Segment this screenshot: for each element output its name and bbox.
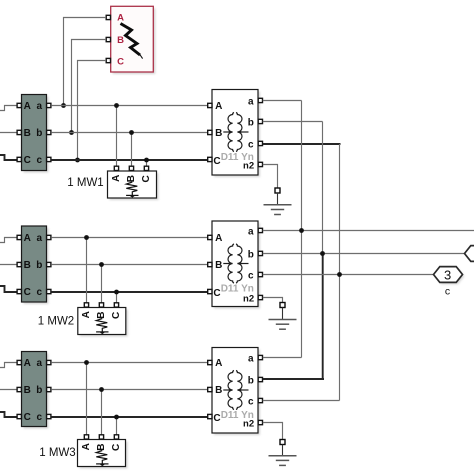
output port 3 (hexagon) xyxy=(434,267,465,285)
svg-text:A: A xyxy=(24,101,31,112)
svg-text:B: B xyxy=(96,443,107,450)
transformer T2 winding icon xyxy=(223,244,248,283)
junction load-B tap row2 xyxy=(99,262,104,267)
three-phase transformer block T2 xyxy=(212,221,260,309)
lightning bolt icon inside fault block xyxy=(121,24,143,59)
wire phase a row3 xyxy=(51,362,209,364)
wire input A row3 (left edge jog) xyxy=(0,363,17,368)
svg-text:A: A xyxy=(81,443,92,450)
wire output phase b xyxy=(263,253,465,255)
transformer T2 port A xyxy=(208,235,212,239)
transformer T1 port C xyxy=(208,157,212,161)
transformer T2 port C xyxy=(208,289,212,293)
wire load tap B row3 xyxy=(101,390,103,435)
svg-text:a: a xyxy=(248,226,254,237)
wire T3 c to bus xyxy=(263,400,340,402)
transformer T2 port c xyxy=(258,272,262,276)
transformer T1 port n2 xyxy=(258,162,262,166)
wire output phase a xyxy=(263,230,474,232)
svg-text:C: C xyxy=(117,57,124,68)
junction load-B tap row3 xyxy=(99,387,104,392)
transformer T2 port n2 xyxy=(258,295,262,299)
measurement row1 port b xyxy=(47,130,51,134)
svg-text:C: C xyxy=(24,412,31,423)
ground block port T3 xyxy=(280,440,285,445)
three-phase transformer block T1 xyxy=(212,90,260,178)
wire load tap A row2 xyxy=(86,238,88,303)
ground symbol T2 xyxy=(269,308,297,330)
wire input A row1 (left edge jog) xyxy=(0,106,17,111)
load row2 port C xyxy=(114,303,118,307)
svg-text:C: C xyxy=(213,288,220,299)
svg-text:1 MW3: 1 MW3 xyxy=(39,447,75,459)
wire n2 T3 to ground xyxy=(263,423,283,440)
measurement row3 port b xyxy=(47,387,51,391)
junction load-A tap row2 xyxy=(84,235,89,240)
three-phase V-I measurement block row3 xyxy=(22,352,49,429)
wire input B row3 xyxy=(0,389,17,391)
svg-text:1 MW2: 1 MW2 xyxy=(38,316,74,328)
svg-text:A: A xyxy=(215,233,222,244)
wire input C row2 (bold, left edge jog) xyxy=(0,286,17,292)
junction load-C tap row2 xyxy=(114,290,119,295)
wire input B row2 xyxy=(0,264,17,266)
svg-text:C: C xyxy=(213,413,220,424)
load row3 port A xyxy=(84,435,88,439)
svg-text:B: B xyxy=(24,385,31,396)
load row1 port A xyxy=(114,166,118,170)
load row2 port A xyxy=(84,303,88,307)
wire T3 a to bus xyxy=(263,357,302,359)
transformer T3 port B xyxy=(208,387,212,391)
junction load-A tap row1 xyxy=(114,103,119,108)
label 1 MW1 xyxy=(67,177,103,189)
transformer T3 port a xyxy=(258,355,262,359)
svg-text:B: B xyxy=(117,35,124,46)
measurement row3 port B xyxy=(17,387,21,391)
wire phase c row2 (bold) xyxy=(51,291,209,293)
three-phase RLC load block 1 MW2 xyxy=(78,308,128,337)
wire load tap C row2 xyxy=(116,292,118,303)
bus vertical phase b upper xyxy=(322,122,324,254)
svg-text:B: B xyxy=(215,260,222,271)
transformer T1 port B xyxy=(208,130,212,134)
load row1 port C xyxy=(144,166,148,170)
measurement row2 port b xyxy=(47,262,51,266)
svg-text:c: c xyxy=(248,139,254,150)
label c under port 3 xyxy=(445,286,450,298)
transformer T1 port c xyxy=(258,141,262,145)
measurement row2 port c xyxy=(47,289,51,293)
svg-text:a: a xyxy=(248,353,254,364)
svg-text:b: b xyxy=(36,128,42,139)
transformer T3 port C xyxy=(208,414,212,418)
transformer T3 winding icon xyxy=(223,371,248,410)
svg-text:3: 3 xyxy=(444,268,451,283)
junction bus-b xyxy=(320,251,325,256)
ground block port T1 xyxy=(275,188,280,193)
wire n2 T2 to ground xyxy=(263,298,283,303)
svg-text:a: a xyxy=(37,233,43,244)
svg-text:c: c xyxy=(248,270,254,281)
transformer T3 port n2 xyxy=(258,420,262,424)
svg-text:B: B xyxy=(24,260,31,271)
three-phase transformer block T3 xyxy=(212,348,260,436)
measurement row1 port C xyxy=(17,157,21,161)
wire load tap B row1 xyxy=(131,133,133,167)
svg-text:D11 Yn: D11 Yn xyxy=(221,410,254,421)
svg-text:C: C xyxy=(24,287,31,298)
measurement row2 port a xyxy=(47,235,51,239)
wire fault C to phase-c node xyxy=(78,61,107,161)
measurement row2 port A xyxy=(17,235,21,239)
svg-text:n2: n2 xyxy=(243,294,254,305)
svg-text:A: A xyxy=(111,175,122,182)
ground symbol T1 xyxy=(264,193,292,215)
measurement row3 port C xyxy=(17,414,21,418)
svg-text:c: c xyxy=(445,286,450,298)
svg-text:c: c xyxy=(248,396,254,407)
junction fault-B tap xyxy=(69,130,74,135)
wire input A row2 (left edge jog) xyxy=(0,238,17,243)
svg-text:b: b xyxy=(36,260,42,271)
wire load tap C row3 xyxy=(116,417,118,435)
transformer T1 port A xyxy=(208,103,212,107)
measurement row1 port B xyxy=(17,130,21,134)
svg-text:C: C xyxy=(24,155,31,166)
transformer T3 port A xyxy=(208,360,212,364)
svg-text:a: a xyxy=(37,101,43,112)
label 1 MW3 xyxy=(39,447,75,459)
junction bus-c xyxy=(337,272,342,277)
measurement row1 port a xyxy=(47,103,51,107)
svg-text:A: A xyxy=(81,311,92,318)
svg-text:a: a xyxy=(37,358,43,369)
wire phase c row1 (bold) xyxy=(51,159,209,161)
wire phase c row3 (bold) xyxy=(51,416,209,418)
svg-text:c: c xyxy=(37,287,43,298)
svg-text:B: B xyxy=(215,128,222,139)
measurement row2 port B xyxy=(17,262,21,266)
load row1 port B xyxy=(129,166,133,170)
junction load-C tap row1 xyxy=(144,158,149,163)
svg-text:B: B xyxy=(215,385,222,396)
load row3 port C xyxy=(114,435,118,439)
bus vertical phase c xyxy=(339,144,341,401)
wire T1 c to bus (bold) xyxy=(263,143,341,145)
three-phase V-I measurement block row2 xyxy=(22,226,49,304)
wire fault A to phase-a node xyxy=(64,18,107,106)
measurement row3 port c xyxy=(47,414,51,418)
svg-text:c: c xyxy=(37,155,43,166)
measurement row3 port A xyxy=(17,360,21,364)
wire load tap B row2 xyxy=(101,265,103,303)
wire load tap A row1 xyxy=(116,106,118,167)
svg-text:B: B xyxy=(24,128,31,139)
junction fault-C tap xyxy=(75,158,80,163)
transformer T1 port a xyxy=(258,98,262,102)
svg-text:B: B xyxy=(126,175,137,182)
transformer T3 port b xyxy=(258,377,262,381)
transformer T2 port B xyxy=(208,262,212,266)
ground block port T2 xyxy=(280,303,285,308)
svg-text:1 MW1: 1 MW1 xyxy=(67,177,103,189)
wire load tap A row3 xyxy=(86,363,88,435)
svg-text:A: A xyxy=(24,233,31,244)
svg-text:C: C xyxy=(141,175,152,182)
measurement row1 port A xyxy=(17,103,21,107)
wire n2 T1 to ground xyxy=(263,165,278,189)
measurement row2 port C xyxy=(17,289,21,293)
wire output phase c xyxy=(263,274,434,276)
wire T1 a to bus xyxy=(263,100,302,102)
wire load tap C row1 xyxy=(146,160,148,166)
svg-text:D11 Yn: D11 Yn xyxy=(221,284,254,295)
fault port C xyxy=(106,58,110,62)
wire phase b row2 xyxy=(51,264,209,266)
bus vertical phase a xyxy=(301,101,303,358)
svg-text:b: b xyxy=(248,249,254,260)
wire input C row1 (bold, left edge jog) xyxy=(0,155,17,160)
svg-text:A: A xyxy=(24,358,31,369)
wire fault B to phase-b node xyxy=(72,40,107,133)
fault port B xyxy=(106,37,110,41)
svg-text:b: b xyxy=(248,375,254,386)
fault port A xyxy=(106,15,110,19)
wire T1 b to bus xyxy=(263,121,323,123)
measurement row3 port a xyxy=(47,360,51,364)
junction bus-a xyxy=(299,228,304,233)
wire phase a row2 xyxy=(51,237,209,239)
bus vertical phase b lower (bold) xyxy=(322,254,324,381)
ground symbol T3 xyxy=(269,445,297,466)
wire input C row3 (bold, left edge jog) xyxy=(0,412,17,417)
svg-text:C: C xyxy=(111,444,122,451)
svg-text:a: a xyxy=(248,96,254,107)
three-phase RLC load block 1 MW1 xyxy=(108,171,159,200)
transformer T2 port b xyxy=(258,251,262,255)
wire phase b row3 xyxy=(51,389,209,391)
label 1 MW2 xyxy=(38,316,74,328)
svg-text:c: c xyxy=(37,412,43,423)
svg-text:B: B xyxy=(96,311,107,318)
junction load-B tap row1 xyxy=(129,130,134,135)
svg-text:C: C xyxy=(111,312,122,319)
junction load-C tap row3 xyxy=(114,415,119,420)
svg-text:b: b xyxy=(248,117,254,128)
wire input B row1 xyxy=(0,132,17,134)
transformer T1 port b xyxy=(258,119,262,123)
three-phase RLC load block 1 MW3 xyxy=(78,440,128,469)
wire T3 b to bus (bold) xyxy=(263,378,324,380)
junction fault-A tap xyxy=(61,103,66,108)
svg-text:A: A xyxy=(117,13,124,24)
svg-text:b: b xyxy=(36,385,42,396)
svg-text:D11 Yn: D11 Yn xyxy=(221,152,254,163)
three-phase fault block "Fault" (red) xyxy=(111,6,156,74)
measurement row1 port c xyxy=(47,157,51,161)
transformer T1 winding icon xyxy=(223,113,248,152)
wire phase a row1 xyxy=(51,105,209,107)
svg-text:A: A xyxy=(215,101,222,112)
svg-text:A: A xyxy=(215,358,222,369)
load row3 port B xyxy=(99,435,103,439)
load row2 port B xyxy=(99,303,103,307)
junction load-A tap row3 xyxy=(84,360,89,365)
wire phase b row1 xyxy=(51,132,209,134)
transformer T3 port c xyxy=(258,398,262,402)
transformer T2 port a xyxy=(258,228,262,232)
three-phase V-I measurement block row1 xyxy=(22,95,49,173)
svg-text:C: C xyxy=(213,156,220,167)
output port (partial hexagon at right edge) xyxy=(465,246,474,262)
